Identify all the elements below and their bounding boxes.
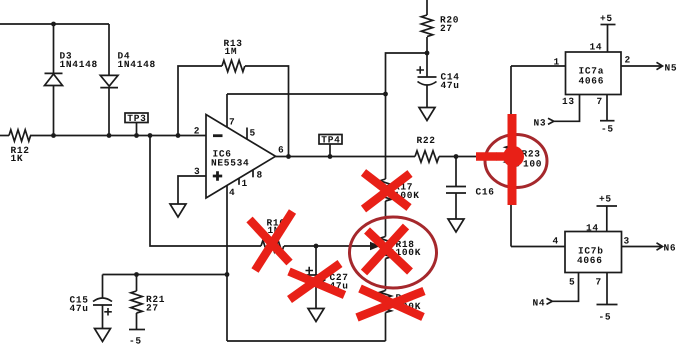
svg-text:-5: -5 <box>599 312 612 323</box>
wire R20 bottom lead <box>426 37 428 53</box>
node junction D3 top <box>51 22 56 27</box>
wire R20 top lead <box>426 0 428 15</box>
wire V+ pin 7 rail <box>227 93 386 95</box>
svg-text:N6: N6 <box>664 243 677 254</box>
resistor R16 <box>261 240 284 251</box>
testpoint TP4 <box>319 135 342 157</box>
svg-text:7: 7 <box>229 117 235 128</box>
svg-text:-5: -5 <box>129 336 142 347</box>
resistor R19 <box>380 291 391 313</box>
annotation red X over R18 <box>364 227 410 273</box>
svg-text:27: 27 <box>146 302 159 313</box>
wire R13 right vertical <box>245 66 289 157</box>
diode D4 <box>100 75 118 87</box>
svg-text:4: 4 <box>553 236 559 247</box>
wire R17 to R18 <box>385 201 387 237</box>
svg-text:1K: 1K <box>11 153 24 164</box>
svg-text:4: 4 <box>229 187 235 198</box>
node junction pin7 rail <box>383 92 388 97</box>
capacitor C15 <box>70 275 113 329</box>
wire R13 left vertical <box>178 66 222 136</box>
svg-text:8: 8 <box>257 170 263 181</box>
resistor R22 <box>415 151 439 162</box>
node junction D4 bottom <box>107 133 112 138</box>
annotation dark red circle around R18 <box>350 217 437 288</box>
annotation red bar horizontal R23 <box>476 152 507 161</box>
wire R19 bottom <box>385 313 387 342</box>
svg-text:N5: N5 <box>665 63 678 74</box>
capacitor C14 <box>417 53 460 108</box>
capacitor C16 <box>446 157 495 220</box>
svg-text:7: 7 <box>596 277 602 288</box>
power -5 below IC7b <box>597 305 618 323</box>
svg-text:NE5534: NE5534 <box>211 158 249 169</box>
svg-text:C16: C16 <box>476 187 495 198</box>
switch IC7a 4066 <box>566 52 622 95</box>
node junction C16 <box>454 154 459 159</box>
node junction R20 C14 <box>425 51 430 56</box>
wire supply branch to divider column <box>386 53 428 179</box>
node N6 arrow <box>657 243 663 250</box>
op-amp U1 IC6 NE5534 <box>206 115 276 199</box>
wire R16 to wiper <box>284 245 370 247</box>
node N5 arrow <box>657 62 663 69</box>
wire pin 4 down <box>226 185 228 341</box>
wire D4 bottom lead <box>108 88 110 136</box>
ground C15 <box>95 329 111 342</box>
node junction R13 output <box>286 154 291 159</box>
wire D3 bottom lead <box>53 86 55 136</box>
svg-text:47u: 47u <box>70 303 89 314</box>
svg-text:3: 3 <box>624 236 630 247</box>
pin 7 stub <box>226 94 228 128</box>
resistor R21 <box>131 291 142 313</box>
wire R23 column bottom <box>510 168 512 247</box>
annotation red dot R23 <box>503 146 524 167</box>
svg-text:100: 100 <box>523 159 542 170</box>
wire D3 top lead <box>53 24 55 73</box>
svg-text:5: 5 <box>250 128 256 139</box>
node N4 arrow <box>547 298 553 304</box>
node N3 arrow <box>548 118 554 124</box>
annotation red X over R16 <box>250 212 293 271</box>
node junction pin4 rail <box>225 272 230 277</box>
node junction TP4 <box>328 154 333 159</box>
resistor R20 <box>421 15 432 37</box>
wire IC7b pin 7 <box>606 273 608 305</box>
power -5 below IC7a <box>600 121 615 135</box>
node junction feedback R16 <box>148 133 153 138</box>
wire IC7a pin 7 <box>606 95 608 121</box>
arrow R18 wiper <box>370 242 381 250</box>
resistor R12 <box>9 130 31 141</box>
wire IC7a pin 2 to N5 <box>621 65 662 67</box>
svg-text:TP3: TP3 <box>127 113 146 124</box>
svg-text:4066: 4066 <box>579 76 605 87</box>
svg-text:R22: R22 <box>417 135 436 146</box>
power +5 above IC7b <box>597 194 618 232</box>
annotation red X over C27 <box>289 264 345 300</box>
svg-text:6: 6 <box>278 145 284 156</box>
annotation red X over R19 <box>357 289 424 318</box>
power +5 above IC7a <box>600 13 616 52</box>
svg-text:47u: 47u <box>441 80 460 91</box>
wire IC7b pin 5 <box>552 273 578 302</box>
wire output row <box>276 156 416 158</box>
node junction feedback R13 <box>176 133 181 138</box>
wire R21 top lead <box>136 275 138 292</box>
pin 5 tick <box>246 128 248 140</box>
svg-text:1N4148: 1N4148 <box>60 59 98 70</box>
node junction R21 top <box>134 272 139 277</box>
svg-text:7: 7 <box>597 96 603 107</box>
svg-text:14: 14 <box>590 41 603 52</box>
potentiometer R23 <box>505 146 516 168</box>
ground C16 <box>448 219 464 232</box>
svg-text:5: 5 <box>569 277 575 288</box>
wire IC7a pin 13 <box>554 95 580 122</box>
wire input row left stub <box>0 135 9 137</box>
svg-text:4066: 4066 <box>577 255 603 266</box>
wire input row <box>30 135 206 137</box>
power -5 below R21 <box>129 330 145 347</box>
pin 1 tick <box>238 178 240 185</box>
svg-text:1: 1 <box>242 178 248 189</box>
wire R23 column top <box>510 66 512 146</box>
svg-text:2: 2 <box>194 126 200 137</box>
svg-text:N4: N4 <box>533 298 546 309</box>
node junction D3 bottom <box>51 133 56 138</box>
svg-text:TP4: TP4 <box>321 135 340 146</box>
arrow R23 wiper <box>496 152 507 160</box>
annotation red bar vertical R23 <box>508 114 517 205</box>
resistor R17 <box>380 179 391 201</box>
node junction C27 <box>314 244 319 249</box>
annotation red X over R17 <box>364 173 411 210</box>
svg-text:+5: +5 <box>600 13 613 24</box>
svg-text:14: 14 <box>586 223 599 234</box>
wire IC7b pin 4 <box>511 246 565 248</box>
resistor R13 <box>222 60 245 71</box>
wire bottom rail <box>227 340 386 342</box>
svg-text:-5: -5 <box>601 124 614 135</box>
svg-text:1N4148: 1N4148 <box>118 59 156 70</box>
capacitor C27 <box>306 246 349 309</box>
switch IC7b 4066 <box>565 232 622 273</box>
wire feedback R16 <box>150 136 261 247</box>
wire R23 wiper <box>456 156 496 158</box>
ground C14 <box>419 108 435 121</box>
svg-text:N3: N3 <box>534 118 547 129</box>
wire R18 to R19 <box>385 259 387 291</box>
wire pin 3 <box>178 176 206 204</box>
potentiometer R18 <box>380 237 391 259</box>
wire R22 right <box>439 156 456 158</box>
wire top-left rail <box>0 23 109 25</box>
svg-text:1: 1 <box>554 57 560 68</box>
svg-text:13: 13 <box>562 96 575 107</box>
wire IC7b pin 3 to N6 <box>622 246 663 248</box>
wire C15 R21 row <box>103 274 228 276</box>
testpoint TP3 <box>125 113 148 136</box>
wire IC7a pin 1 <box>511 65 566 67</box>
wire D4 top lead <box>108 24 110 75</box>
annotation dark red circle around R23 <box>485 135 547 188</box>
pin 8 tick <box>252 170 254 178</box>
svg-text:2: 2 <box>625 55 631 66</box>
svg-text:1M: 1M <box>225 46 238 57</box>
node junction TP3 <box>134 133 139 138</box>
svg-text:27: 27 <box>440 23 453 34</box>
diode D3 <box>45 73 63 85</box>
wire R21 bottom lead <box>136 313 138 330</box>
ground C27 <box>308 309 324 322</box>
ground pin 3 <box>170 204 186 217</box>
svg-text:+5: +5 <box>599 194 612 205</box>
